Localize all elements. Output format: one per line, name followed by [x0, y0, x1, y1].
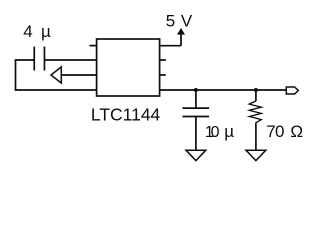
resistor R1 70ohm zigzag [249, 101, 261, 123]
pin stub left top [90, 45, 97, 47]
power 5V arrow [177, 28, 185, 35]
arrow polarity marker [51, 67, 61, 83]
svg-text:LTC1144: LTC1144 [91, 105, 161, 125]
svg-text:0: 0 [275, 122, 284, 141]
capacitor C2 10u plates [183, 108, 210, 116]
wire left loop rail [16, 60, 97, 90]
wire capacitor C2 bottom lead [195, 117, 197, 151]
ground 1 [186, 150, 206, 160]
pin stub right 1 [160, 59, 166, 61]
wire resistor bottom lead [255, 123, 257, 151]
ground 2 [246, 150, 266, 160]
svg-text:µ: µ [224, 122, 234, 141]
capacitor C1 4u plates [34, 47, 44, 71]
wire capacitor C1 to chip [44, 59, 96, 61]
svg-text:4: 4 [23, 22, 32, 41]
output port connector [286, 87, 298, 94]
wire output net [160, 89, 287, 91]
wire 5V pin [160, 34, 181, 46]
wire capacitor C2 top lead [195, 90, 197, 108]
svg-text:V: V [181, 11, 193, 30]
node junction dot 2 [254, 88, 258, 92]
svg-text:5: 5 [166, 11, 175, 30]
pin stub right 2 [160, 74, 166, 76]
node junction dot 1 [194, 88, 198, 92]
wire resistor top lead [255, 90, 257, 101]
svg-text:µ: µ [41, 22, 51, 41]
svg-text:Ω: Ω [290, 122, 303, 141]
svg-text:0: 0 [211, 124, 220, 141]
IC U1 LTC1144 body [97, 39, 160, 96]
wire arrow pin [61, 74, 97, 76]
